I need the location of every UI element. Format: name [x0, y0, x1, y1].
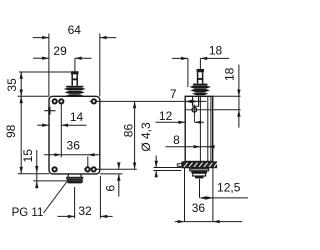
svg-text:36: 36	[67, 139, 81, 153]
dimension 15	[36, 150, 38, 189]
svg-text:29: 29	[53, 44, 67, 58]
plunger collar front	[66, 86, 83, 88]
plunger front: extension to 29 dim	[74, 58, 76, 71]
flange left stub	[177, 163, 181, 165]
svg-text:14: 14	[70, 110, 84, 124]
dimension 29	[33, 57, 49, 59]
side internal vertical lines	[199, 96, 201, 161]
dimension 18 top	[187, 58, 189, 87]
mounting holes front	[53, 99, 57, 103]
svg-text:Ø 4,3: Ø 4,3	[139, 122, 153, 152]
cross mark on left body edge	[44, 110, 55, 112]
svg-text:35: 35	[5, 78, 19, 92]
plunger side collar	[193, 84, 208, 86]
dimension 12,5	[199, 179, 201, 198]
svg-text:PG 11: PG 11	[12, 207, 44, 219]
dimension 36 side	[184, 167, 186, 221]
dimension 12	[156, 121, 186, 123]
svg-text:86: 86	[121, 124, 135, 138]
svg-text:98: 98	[4, 124, 18, 138]
dimension 36 front	[44, 154, 100, 156]
hole center line top	[90, 100, 207, 102]
dimension 8	[166, 146, 215, 148]
svg-text:12: 12	[159, 109, 173, 123]
svg-text:6: 6	[104, 185, 118, 192]
dimension 32	[74, 187, 76, 219]
dimension 7	[185, 100, 192, 103]
leader line PG 11	[44, 180, 69, 214]
front view body outline	[49, 96, 100, 174]
dimension 98	[20, 96, 22, 173]
dimension Ø 4,3	[154, 167, 182, 169]
bellows front	[64, 88, 86, 91]
mounting flange side (hatched)	[181, 162, 217, 168]
svg-text:32: 32	[78, 204, 92, 218]
plunger shaft front	[71, 74, 73, 85]
dimension 64	[48, 34, 50, 97]
plunger cap front	[71, 71, 79, 74]
svg-text:18: 18	[223, 67, 237, 81]
svg-text:15: 15	[21, 149, 35, 163]
extension line from top-left hole down	[60, 104, 62, 158]
svg-text:7: 7	[170, 87, 177, 101]
svg-text:8: 8	[173, 133, 180, 147]
plunger side shaft	[197, 72, 199, 83]
cable gland front	[67, 174, 69, 177]
dimension 18 right	[213, 95, 241, 97]
cable gland side	[190, 168, 209, 171]
svg-text:36: 36	[192, 201, 206, 215]
side view body outline	[185, 96, 213, 161]
plunger side: cap	[197, 69, 204, 72]
svg-text:12,5: 12,5	[217, 181, 241, 195]
bellows side	[189, 85, 211, 88]
svg-text:64: 64	[68, 23, 82, 37]
dimension 6	[118, 162, 120, 169]
body bottom extension line right	[100, 173, 123, 175]
dimension 86	[134, 101, 136, 169]
side hole circle	[192, 108, 197, 113]
plunger bushing side	[192, 96, 194, 106]
hole center line bottom	[84, 168, 137, 170]
dimension 35	[19, 71, 71, 73]
svg-text:18: 18	[209, 43, 223, 57]
dimension 14	[37, 124, 49, 126]
